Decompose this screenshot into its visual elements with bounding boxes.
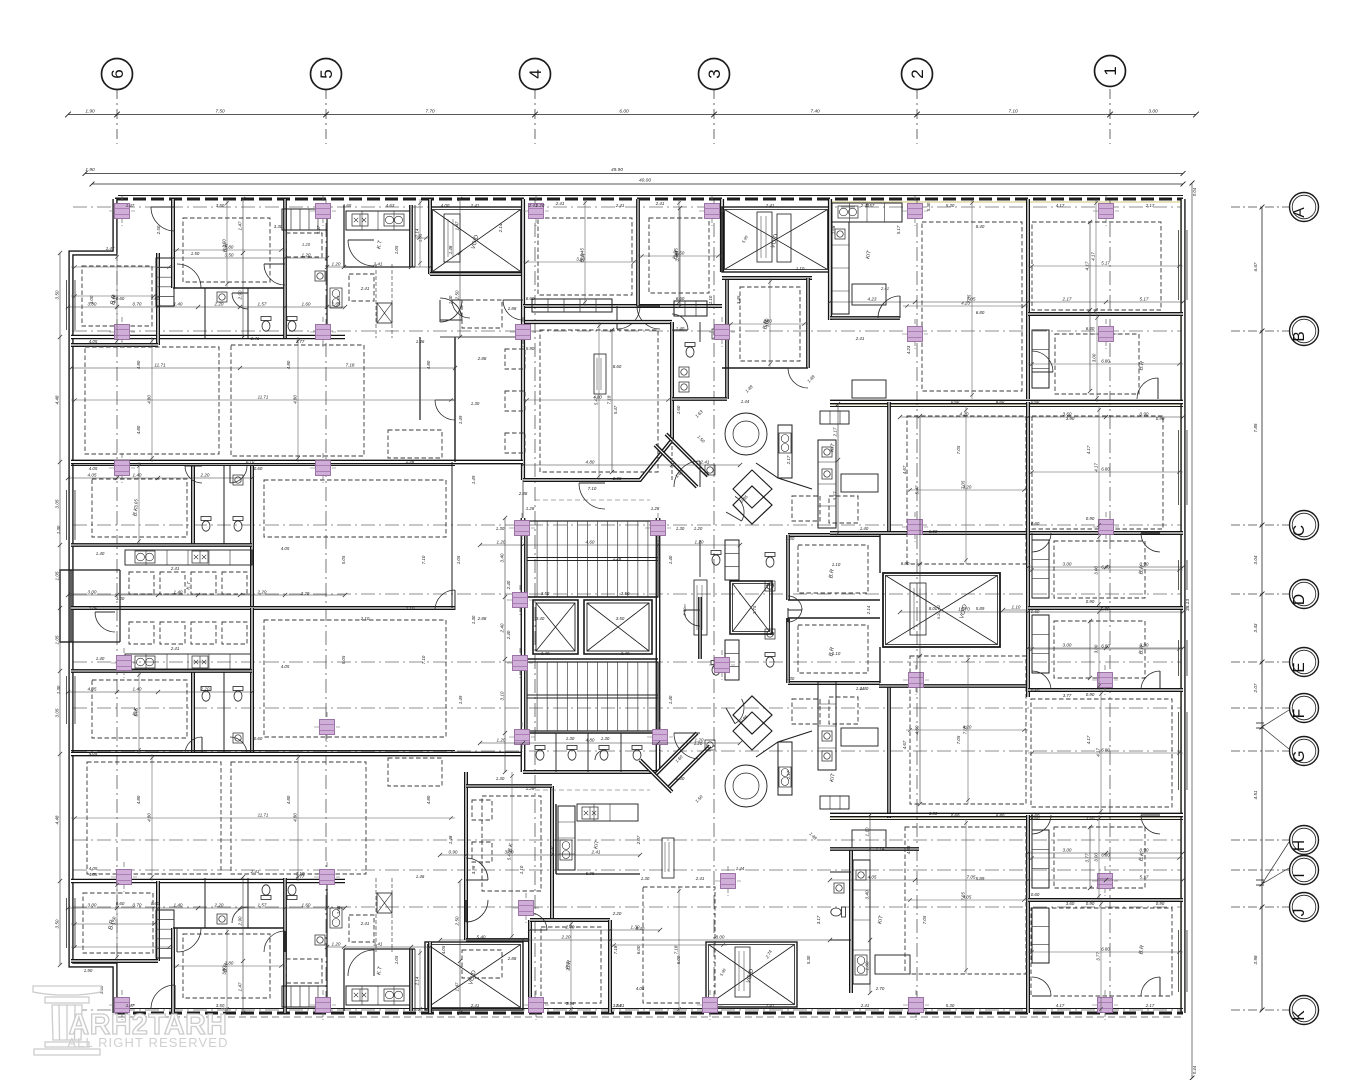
svg-text:1.49: 1.49 bbox=[458, 695, 463, 704]
svg-text:5.47: 5.47 bbox=[316, 225, 321, 234]
svg-text:4.05: 4.05 bbox=[89, 872, 98, 877]
svg-text:7.18: 7.18 bbox=[346, 363, 355, 368]
svg-text:2.20: 2.20 bbox=[200, 687, 210, 692]
svg-text:2.20: 2.20 bbox=[257, 590, 267, 595]
svg-text:0.90: 0.90 bbox=[1086, 901, 1095, 906]
svg-text:4.20: 4.20 bbox=[963, 725, 972, 730]
svg-text:1.44: 1.44 bbox=[736, 866, 745, 871]
svg-text:4.23: 4.23 bbox=[961, 301, 970, 306]
svg-text:1.48: 1.48 bbox=[448, 245, 453, 254]
svg-text:3.00: 3.00 bbox=[116, 596, 125, 601]
svg-text:5.17: 5.17 bbox=[1101, 261, 1110, 266]
svg-text:0.90: 0.90 bbox=[1086, 599, 1095, 604]
svg-text:4.80: 4.80 bbox=[286, 360, 291, 369]
svg-text:2.17: 2.17 bbox=[786, 455, 791, 465]
svg-text:2.88: 2.88 bbox=[477, 356, 487, 361]
svg-text:0.60: 0.60 bbox=[1031, 399, 1040, 404]
svg-text:6.80: 6.80 bbox=[901, 561, 910, 566]
svg-text:1.40: 1.40 bbox=[860, 686, 869, 691]
svg-text:7.05: 7.05 bbox=[956, 445, 961, 454]
svg-text:K: K bbox=[1291, 1010, 1308, 1021]
svg-text:1.10: 1.10 bbox=[796, 266, 805, 271]
svg-text:0.90: 0.90 bbox=[1156, 416, 1165, 421]
svg-text:®: ® bbox=[221, 1005, 227, 1014]
svg-text:4.80: 4.80 bbox=[286, 795, 291, 804]
svg-text:3.60: 3.60 bbox=[1066, 901, 1075, 906]
svg-text:1.30: 1.30 bbox=[471, 615, 476, 624]
svg-text:1.10: 1.10 bbox=[519, 865, 524, 874]
svg-text:1.40: 1.40 bbox=[676, 326, 685, 331]
svg-text:5.30: 5.30 bbox=[946, 203, 955, 208]
svg-text:3.77: 3.77 bbox=[1063, 693, 1072, 698]
svg-text:2.70: 2.70 bbox=[566, 962, 571, 972]
svg-text:1.10: 1.10 bbox=[865, 827, 870, 836]
svg-text:0.44: 0.44 bbox=[1192, 1065, 1197, 1074]
svg-text:3.05: 3.05 bbox=[55, 708, 60, 717]
svg-text:3: 3 bbox=[705, 69, 724, 78]
svg-text:1.40: 1.40 bbox=[668, 555, 673, 564]
svg-text:0.60: 0.60 bbox=[1031, 688, 1040, 693]
svg-text:4.17: 4.17 bbox=[1094, 463, 1099, 472]
svg-text:2.41: 2.41 bbox=[555, 201, 565, 206]
svg-text:4.67: 4.67 bbox=[902, 740, 907, 749]
svg-text:3.00: 3.00 bbox=[1094, 853, 1099, 862]
svg-text:4.05: 4.05 bbox=[281, 546, 290, 551]
svg-text:6.80: 6.80 bbox=[1101, 359, 1110, 364]
svg-text:3.00: 3.00 bbox=[1063, 643, 1072, 648]
svg-text:3.50: 3.50 bbox=[55, 290, 60, 299]
svg-text:1.50: 1.50 bbox=[191, 251, 200, 256]
svg-text:H: H bbox=[1291, 840, 1308, 851]
svg-text:3.00: 3.00 bbox=[1148, 109, 1158, 115]
svg-text:J: J bbox=[1291, 909, 1308, 917]
svg-text:4.67: 4.67 bbox=[902, 465, 907, 474]
svg-text:5.05: 5.05 bbox=[341, 655, 346, 664]
svg-text:3.50: 3.50 bbox=[541, 591, 550, 596]
svg-text:2.41: 2.41 bbox=[170, 566, 180, 571]
svg-text:1.20: 1.20 bbox=[302, 242, 311, 247]
svg-text:1.57: 1.57 bbox=[258, 903, 267, 908]
svg-text:6.80: 6.80 bbox=[1101, 565, 1110, 570]
svg-text:1.20: 1.20 bbox=[497, 738, 506, 743]
svg-text:0.60: 0.60 bbox=[1031, 816, 1040, 821]
svg-text:3.30: 3.30 bbox=[576, 257, 585, 262]
svg-text:2.37: 2.37 bbox=[549, 845, 554, 855]
svg-text:1.30: 1.30 bbox=[676, 776, 685, 781]
svg-text:2.41: 2.41 bbox=[880, 286, 889, 291]
svg-text:0.60: 0.60 bbox=[1031, 609, 1040, 614]
svg-text:3.80: 3.80 bbox=[225, 245, 234, 250]
svg-text:7.10: 7.10 bbox=[421, 655, 426, 664]
svg-text:7.05: 7.05 bbox=[956, 735, 961, 744]
svg-text:3.40: 3.40 bbox=[621, 651, 630, 656]
svg-text:8.60: 8.60 bbox=[613, 364, 622, 369]
svg-text:1.68: 1.68 bbox=[831, 225, 836, 234]
svg-text:2.41: 2.41 bbox=[615, 203, 625, 208]
svg-text:2.41: 2.41 bbox=[855, 336, 865, 341]
svg-text:2.20: 2.20 bbox=[200, 473, 210, 478]
svg-text:11.71: 11.71 bbox=[258, 813, 269, 818]
svg-text:1.05: 1.05 bbox=[456, 555, 461, 564]
svg-text:2.17: 2.17 bbox=[786, 770, 791, 780]
svg-text:1.30: 1.30 bbox=[56, 525, 61, 534]
svg-text:1.40: 1.40 bbox=[668, 695, 673, 704]
svg-text:0.60: 0.60 bbox=[151, 901, 160, 906]
svg-text:2.07: 2.07 bbox=[1253, 683, 1258, 693]
svg-text:6.00: 6.00 bbox=[619, 109, 629, 115]
svg-text:2.50: 2.50 bbox=[455, 290, 460, 300]
svg-text:1.28: 1.28 bbox=[651, 506, 660, 511]
svg-text:4.17: 4.17 bbox=[1086, 445, 1091, 454]
svg-text:6.80: 6.80 bbox=[1101, 947, 1110, 952]
svg-text:3.50: 3.50 bbox=[216, 203, 225, 208]
svg-text:2.41: 2.41 bbox=[373, 942, 383, 947]
svg-text:5.17: 5.17 bbox=[896, 225, 901, 234]
svg-text:1.60: 1.60 bbox=[676, 405, 681, 414]
svg-text:4.05: 4.05 bbox=[89, 751, 98, 756]
svg-text:6: 6 bbox=[108, 69, 127, 78]
svg-text:6.67: 6.67 bbox=[1253, 262, 1258, 271]
svg-text:8.40: 8.40 bbox=[636, 926, 645, 931]
svg-text:2.41: 2.41 bbox=[170, 646, 180, 651]
svg-text:4.48: 4.48 bbox=[55, 815, 60, 824]
svg-text:3.50: 3.50 bbox=[621, 591, 630, 596]
svg-text:4.05: 4.05 bbox=[868, 875, 877, 880]
svg-text:7.05: 7.05 bbox=[967, 875, 976, 880]
svg-text:1.47: 1.47 bbox=[238, 221, 243, 230]
svg-text:2.14: 2.14 bbox=[866, 605, 871, 615]
svg-text:3.40: 3.40 bbox=[541, 651, 550, 656]
svg-text:4.80: 4.80 bbox=[147, 395, 152, 404]
svg-text:0.90: 0.90 bbox=[449, 850, 458, 855]
svg-text:1.05: 1.05 bbox=[394, 955, 399, 964]
svg-text:1.47: 1.47 bbox=[238, 982, 243, 991]
svg-text:6.60: 6.60 bbox=[676, 296, 685, 301]
svg-text:0.60: 0.60 bbox=[254, 466, 263, 471]
svg-text:1.10: 1.10 bbox=[708, 295, 713, 304]
svg-text:2.17: 2.17 bbox=[1145, 203, 1155, 208]
svg-text:2: 2 bbox=[908, 69, 927, 78]
svg-text:3.77: 3.77 bbox=[1096, 952, 1101, 961]
svg-text:1.30: 1.30 bbox=[496, 526, 505, 531]
svg-text:1: 1 bbox=[1101, 66, 1120, 75]
svg-text:3.80: 3.80 bbox=[225, 961, 234, 966]
svg-text:G: G bbox=[1291, 750, 1308, 762]
svg-text:1.44: 1.44 bbox=[741, 399, 750, 404]
svg-text:1.60: 1.60 bbox=[302, 903, 311, 908]
svg-text:1.40: 1.40 bbox=[174, 302, 183, 307]
svg-text:6.80: 6.80 bbox=[929, 529, 938, 534]
svg-text:2.50: 2.50 bbox=[156, 225, 161, 235]
svg-text:I: I bbox=[1291, 873, 1308, 877]
svg-text:3.45: 3.45 bbox=[736, 295, 741, 304]
svg-text:6.00: 6.00 bbox=[676, 955, 681, 964]
svg-text:1.30: 1.30 bbox=[786, 536, 795, 541]
svg-text:6.00: 6.00 bbox=[636, 945, 641, 954]
svg-text:4.17: 4.17 bbox=[1086, 735, 1091, 744]
svg-text:3.98: 3.98 bbox=[1253, 955, 1258, 964]
svg-text:2.90: 2.90 bbox=[238, 290, 243, 300]
svg-text:7.10: 7.10 bbox=[1008, 109, 1018, 115]
svg-text:5.89: 5.89 bbox=[976, 876, 985, 881]
svg-text:0.90: 0.90 bbox=[1156, 901, 1165, 906]
svg-text:4.05: 4.05 bbox=[441, 945, 446, 954]
svg-text:5.47: 5.47 bbox=[507, 851, 512, 860]
svg-text:1.05: 1.05 bbox=[55, 635, 60, 644]
svg-text:2.70: 2.70 bbox=[875, 986, 885, 991]
svg-text:1.05: 1.05 bbox=[89, 606, 98, 611]
svg-text:2.80: 2.80 bbox=[762, 319, 772, 324]
svg-text:4.80: 4.80 bbox=[426, 360, 431, 369]
svg-text:2.41: 2.41 bbox=[470, 1003, 480, 1008]
svg-text:2.41: 2.41 bbox=[250, 869, 260, 874]
svg-text:3.40: 3.40 bbox=[500, 553, 505, 562]
svg-text:1.60: 1.60 bbox=[865, 961, 870, 970]
svg-text:6.80: 6.80 bbox=[1101, 748, 1110, 753]
svg-text:2.10: 2.10 bbox=[360, 616, 370, 621]
svg-text:6.80: 6.80 bbox=[976, 310, 985, 315]
svg-text:1.20: 1.20 bbox=[694, 741, 703, 746]
svg-text:0.60: 0.60 bbox=[951, 813, 960, 818]
svg-text:3.43: 3.43 bbox=[1253, 623, 1258, 632]
svg-text:1.49: 1.49 bbox=[471, 475, 476, 484]
svg-text:3.50: 3.50 bbox=[55, 919, 60, 928]
svg-text:5.05: 5.05 bbox=[341, 555, 346, 564]
svg-text:2.75: 2.75 bbox=[752, 605, 757, 615]
svg-text:3.00: 3.00 bbox=[88, 903, 97, 908]
svg-text:1.30: 1.30 bbox=[641, 876, 650, 881]
svg-text:4.20: 4.20 bbox=[963, 485, 972, 490]
svg-text:6.60: 6.60 bbox=[526, 296, 535, 301]
svg-text:3.05: 3.05 bbox=[55, 499, 60, 508]
svg-text:2.41: 2.41 bbox=[765, 203, 775, 208]
svg-text:1.46: 1.46 bbox=[416, 339, 425, 344]
svg-text:1.05: 1.05 bbox=[55, 571, 60, 580]
svg-text:1.40: 1.40 bbox=[133, 473, 142, 478]
svg-text:1.65: 1.65 bbox=[343, 203, 352, 208]
svg-text:4.17: 4.17 bbox=[1091, 252, 1096, 261]
svg-text:1.30: 1.30 bbox=[676, 526, 685, 531]
svg-text:2.41: 2.41 bbox=[591, 850, 601, 855]
svg-text:B: B bbox=[1291, 331, 1308, 341]
svg-text:1.28: 1.28 bbox=[526, 786, 535, 791]
svg-text:5.89: 5.89 bbox=[976, 606, 985, 611]
svg-text:3.54: 3.54 bbox=[566, 1001, 575, 1006]
svg-text:1.10: 1.10 bbox=[832, 562, 841, 567]
svg-text:11.71: 11.71 bbox=[258, 395, 269, 400]
svg-text:2.20: 2.20 bbox=[300, 591, 310, 596]
svg-text:4.23: 4.23 bbox=[868, 297, 877, 302]
svg-text:1.65: 1.65 bbox=[336, 905, 341, 914]
svg-text:5.17: 5.17 bbox=[1140, 875, 1149, 880]
svg-text:4.80: 4.80 bbox=[136, 425, 141, 434]
svg-text:2.41: 2.41 bbox=[470, 203, 480, 208]
svg-text:1.77: 1.77 bbox=[296, 874, 305, 879]
svg-text:3.00: 3.00 bbox=[88, 590, 97, 595]
svg-text:4.00: 4.00 bbox=[441, 203, 450, 208]
svg-text:1.30: 1.30 bbox=[601, 736, 610, 741]
svg-text:5.89: 5.89 bbox=[1101, 607, 1110, 612]
svg-text:2.14: 2.14 bbox=[498, 223, 503, 233]
svg-text:1.30: 1.30 bbox=[496, 776, 505, 781]
svg-text:3.40: 3.40 bbox=[536, 616, 545, 621]
svg-text:3.54: 3.54 bbox=[613, 1003, 622, 1008]
svg-text:1.40: 1.40 bbox=[174, 903, 183, 908]
svg-text:3.98: 3.98 bbox=[471, 865, 476, 874]
svg-text:4.80: 4.80 bbox=[147, 813, 152, 822]
svg-text:F: F bbox=[1291, 709, 1308, 718]
svg-text:0.60: 0.60 bbox=[951, 399, 960, 404]
svg-text:5.30: 5.30 bbox=[926, 202, 931, 211]
svg-text:4.60: 4.60 bbox=[586, 540, 595, 545]
svg-text:5.30: 5.30 bbox=[806, 955, 811, 964]
svg-text:1.47: 1.47 bbox=[455, 982, 460, 991]
svg-text:1.47: 1.47 bbox=[455, 221, 460, 230]
svg-text:2.41: 2.41 bbox=[360, 286, 370, 291]
svg-text:A: A bbox=[1291, 207, 1308, 218]
svg-text:6.80: 6.80 bbox=[996, 399, 1005, 404]
svg-text:4.80: 4.80 bbox=[586, 460, 595, 465]
svg-text:3.17: 3.17 bbox=[816, 915, 821, 924]
svg-text:4.05: 4.05 bbox=[89, 466, 98, 471]
svg-text:C: C bbox=[1291, 525, 1308, 536]
svg-text:8.40: 8.40 bbox=[976, 224, 985, 229]
svg-text:1.90: 1.90 bbox=[84, 968, 93, 973]
svg-text:1.20: 1.20 bbox=[497, 540, 506, 545]
svg-text:1.10: 1.10 bbox=[832, 651, 841, 656]
svg-text:1.20: 1.20 bbox=[536, 203, 545, 208]
svg-text:7.18: 7.18 bbox=[613, 945, 618, 954]
svg-text:3.90: 3.90 bbox=[1066, 416, 1075, 421]
svg-text:1.46: 1.46 bbox=[416, 874, 425, 879]
svg-text:2.90: 2.90 bbox=[238, 916, 243, 926]
svg-text:1.48: 1.48 bbox=[448, 835, 453, 844]
svg-text:1.40: 1.40 bbox=[174, 590, 183, 595]
svg-text:1.30: 1.30 bbox=[56, 685, 61, 694]
svg-text:4.23: 4.23 bbox=[906, 845, 911, 854]
svg-text:6.80: 6.80 bbox=[929, 811, 938, 816]
svg-text:1.47: 1.47 bbox=[126, 203, 135, 208]
svg-text:3.10: 3.10 bbox=[500, 691, 505, 700]
svg-text:10.70: 10.70 bbox=[958, 607, 970, 612]
svg-text:3.17: 3.17 bbox=[833, 491, 838, 500]
svg-text:2.88: 2.88 bbox=[518, 491, 528, 496]
svg-text:1.57: 1.57 bbox=[258, 302, 267, 307]
svg-text:E: E bbox=[1291, 662, 1308, 672]
svg-text:1.05: 1.05 bbox=[394, 245, 399, 254]
svg-text:2.20: 2.20 bbox=[561, 935, 571, 940]
svg-text:5.95: 5.95 bbox=[586, 871, 595, 876]
svg-text:2.40: 2.40 bbox=[506, 630, 511, 640]
svg-text:4.05: 4.05 bbox=[88, 473, 97, 478]
svg-text:4.80: 4.80 bbox=[293, 395, 298, 404]
svg-text:1.47: 1.47 bbox=[106, 246, 115, 251]
svg-text:2.14: 2.14 bbox=[875, 846, 885, 851]
svg-text:ALL RIGHT RESERVED: ALL RIGHT RESERVED bbox=[67, 1035, 228, 1050]
svg-text:4.05: 4.05 bbox=[88, 687, 97, 692]
svg-text:8.00: 8.00 bbox=[716, 935, 725, 940]
svg-text:0.60: 0.60 bbox=[116, 296, 125, 301]
svg-text:3.00: 3.00 bbox=[89, 295, 94, 304]
svg-text:0.90: 0.90 bbox=[1140, 562, 1149, 567]
svg-text:0.70: 0.70 bbox=[246, 459, 255, 464]
svg-text:1.20: 1.20 bbox=[332, 942, 341, 947]
svg-text:2.41: 2.41 bbox=[360, 921, 370, 926]
svg-text:2.20: 2.20 bbox=[214, 302, 224, 307]
svg-text:2.41: 2.41 bbox=[860, 203, 870, 208]
svg-text:4.80: 4.80 bbox=[136, 360, 141, 369]
svg-text:1.28: 1.28 bbox=[613, 556, 622, 561]
svg-text:1.66: 1.66 bbox=[766, 582, 775, 587]
svg-text:1.40: 1.40 bbox=[448, 295, 453, 304]
svg-text:1.20: 1.20 bbox=[302, 253, 311, 258]
svg-text:8.00: 8.00 bbox=[929, 606, 938, 611]
svg-text:1.20: 1.20 bbox=[332, 262, 341, 267]
svg-text:7.85: 7.85 bbox=[1253, 423, 1258, 432]
svg-text:1.40: 1.40 bbox=[96, 551, 105, 556]
svg-text:1.20: 1.20 bbox=[695, 540, 704, 545]
svg-text:1.66: 1.66 bbox=[766, 631, 775, 636]
svg-text:2.41: 2.41 bbox=[765, 1003, 775, 1008]
svg-text:2.88: 2.88 bbox=[507, 956, 517, 961]
svg-text:6.80: 6.80 bbox=[996, 813, 1005, 818]
svg-text:2.88: 2.88 bbox=[612, 476, 622, 481]
svg-text:4.80: 4.80 bbox=[293, 813, 298, 822]
svg-text:4.80: 4.80 bbox=[426, 795, 431, 804]
svg-text:0.70: 0.70 bbox=[133, 903, 142, 908]
svg-text:4.05: 4.05 bbox=[89, 866, 98, 871]
svg-text:4.05: 4.05 bbox=[963, 895, 972, 900]
svg-text:2.41: 2.41 bbox=[700, 460, 710, 465]
svg-text:6.80: 6.80 bbox=[1101, 644, 1110, 649]
svg-text:6.80: 6.80 bbox=[1101, 467, 1110, 472]
svg-text:3.00: 3.00 bbox=[1094, 644, 1099, 653]
svg-text:1.49: 1.49 bbox=[458, 415, 463, 424]
svg-text:3.50: 3.50 bbox=[225, 253, 234, 258]
svg-text:3.00: 3.00 bbox=[1092, 353, 1097, 362]
svg-text:4.23: 4.23 bbox=[906, 345, 911, 354]
svg-text:11.71: 11.71 bbox=[154, 363, 166, 368]
svg-text:4.80: 4.80 bbox=[136, 795, 141, 804]
svg-text:5.17: 5.17 bbox=[1140, 297, 1149, 302]
svg-text:7.40: 7.40 bbox=[810, 109, 820, 115]
svg-text:4.48: 4.48 bbox=[55, 395, 60, 404]
svg-text:2.41: 2.41 bbox=[655, 201, 665, 206]
svg-text:2.40: 2.40 bbox=[500, 623, 505, 633]
svg-text:5.40: 5.40 bbox=[477, 935, 486, 940]
svg-text:2.20: 2.20 bbox=[214, 903, 224, 908]
svg-text:1.60: 1.60 bbox=[302, 302, 311, 307]
svg-text:1.40: 1.40 bbox=[133, 687, 142, 692]
svg-text:0.60: 0.60 bbox=[254, 736, 263, 741]
svg-text:4: 4 bbox=[526, 69, 545, 78]
svg-text:2.10: 2.10 bbox=[405, 606, 415, 611]
svg-text:2.40: 2.40 bbox=[506, 580, 511, 590]
svg-text:1.65: 1.65 bbox=[336, 295, 341, 304]
svg-text:0.70: 0.70 bbox=[133, 302, 142, 307]
svg-text:3.05: 3.05 bbox=[134, 499, 139, 508]
svg-text:4.05: 4.05 bbox=[89, 339, 98, 344]
svg-text:7.50: 7.50 bbox=[215, 109, 225, 115]
svg-text:4.80: 4.80 bbox=[593, 395, 602, 400]
svg-text:7.10: 7.10 bbox=[421, 555, 426, 564]
svg-text:3.05: 3.05 bbox=[134, 708, 139, 717]
svg-text:2.17: 2.17 bbox=[833, 427, 838, 437]
svg-text:3.40: 3.40 bbox=[865, 890, 870, 899]
svg-text:4.80: 4.80 bbox=[586, 738, 595, 743]
svg-text:1.20: 1.20 bbox=[694, 526, 703, 531]
svg-text:1.46: 1.46 bbox=[406, 459, 415, 464]
